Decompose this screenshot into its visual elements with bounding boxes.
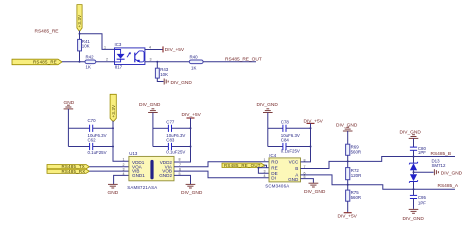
wire: IC3 pin4 to DIV_+5V: [145, 49, 163, 51]
resistor R41: [78, 39, 91, 51]
wire: +3.3V rail to U13 VDD1: [112, 121, 129, 162]
svg-text:C77: C77: [166, 120, 175, 125]
svg-text:SAM8721ASA: SAM8721ASA: [127, 185, 157, 190]
ground GND (above C70): [64, 100, 75, 109]
svg-text:DI: DI: [271, 176, 276, 181]
svg-text:GND: GND: [108, 190, 119, 196]
svg-text:DIV_GND: DIV_GND: [400, 130, 422, 136]
svg-text:DIV_GND: DIV_GND: [441, 170, 463, 176]
svg-text:IC4: IC4: [269, 153, 276, 158]
svg-text:0.1uF25V: 0.1uF25V: [166, 150, 185, 155]
wire: R75 to DIV_+5V: [347, 201, 349, 212]
wire: TX to U13 VOA: [89, 166, 128, 168]
wire: IC4 GND to DIV_GND: [301, 179, 314, 183]
power port DIV_+5V (pin4): [163, 46, 185, 53]
transceiver IC4: [265, 153, 300, 189]
resistor R42: [85, 54, 96, 69]
svg-text:560R: 560R: [351, 195, 362, 200]
resistor R72: [346, 168, 362, 180]
svg-text:1: 1: [104, 46, 106, 50]
ground DIV_GND (above C80): [400, 130, 422, 139]
capacitor C83: [153, 138, 191, 155]
svg-text:4: 4: [123, 172, 125, 176]
svg-text:DIV_GND: DIV_GND: [403, 216, 425, 222]
ground GND (below U13 pin4): [108, 184, 119, 195]
svg-text:C83: C83: [166, 138, 175, 143]
svg-text:1K: 1K: [86, 65, 91, 70]
wire: R40 to RS485_RE_OUT: [203, 61, 256, 63]
IC3 LED: [115, 50, 125, 62]
wire: R72 to R75: [347, 180, 349, 190]
svg-text:DIV_GND: DIV_GND: [257, 102, 279, 108]
wire: RS485_RE port to R42: [62, 61, 85, 63]
capacitor C62: [68, 138, 113, 156]
svg-text:2: 2: [106, 57, 108, 61]
svg-text:120R: 120R: [351, 173, 362, 178]
wire: +3.3V port to R41 and to IC3 pin1: [79, 31, 115, 50]
svg-text:+3.3V: +3.3V: [111, 105, 116, 118]
wire: DIV_GND to R69: [347, 131, 349, 144]
port +3.3V (top, vertical): [77, 5, 82, 32]
ground DIV_GND (above C78): [257, 102, 279, 113]
IC3 light arrow: [127, 52, 131, 57]
svg-text:2: 2: [264, 164, 266, 168]
wire: DIV_+5V rail to U13 VDD2: [174, 118, 192, 162]
svg-text:C62: C62: [88, 138, 97, 143]
capacitor C78: [268, 120, 311, 138]
svg-text:RS485_RE_OUT: RS485_RE_OUT: [224, 163, 261, 168]
svg-text:C70: C70: [88, 118, 97, 123]
ground DIV_GND (below C95): [403, 209, 425, 222]
svg-text:GND1: GND1: [132, 173, 145, 178]
isolator U13: [127, 151, 174, 190]
wire: RX to U13 VIB: [89, 170, 128, 172]
wire: DIV_GND rail (C78/C84): [267, 113, 269, 147]
wire: U13 VOB to IC4 DI: [174, 171, 269, 178]
wire: R41 to RE line junction: [79, 51, 81, 63]
U13 pin numbers: [123, 158, 182, 176]
svg-text:3: 3: [264, 170, 266, 174]
svg-text:1K: 1K: [191, 65, 196, 70]
wire: U13 GND2 to DIV_GND: [174, 175, 191, 184]
capacitor C80: [410, 138, 427, 156]
wire: DIV_GND rail (C77/C83): [152, 113, 154, 147]
resistor R40: [189, 54, 203, 70]
wire: R43 to DIV_GND: [157, 78, 163, 81]
svg-text:DIV_+5V: DIV_+5V: [182, 112, 202, 118]
wire: U13 VIA to IC4 RO: [174, 162, 269, 167]
svg-text:GND2: GND2: [159, 173, 172, 178]
capacitor C84: [268, 138, 311, 154]
svg-text:1PF: 1PF: [418, 150, 426, 155]
svg-text:DIV_+5V: DIV_+5V: [338, 213, 358, 219]
power port DIV_+5V (above IC4 VCC): [304, 118, 324, 124]
resistor R75: [346, 190, 362, 201]
TVS diode D13 (SM712): [409, 157, 446, 190]
svg-text:R75: R75: [351, 190, 360, 195]
IC4 pin numbers: [264, 158, 306, 179]
svg-text:RS485_B: RS485_B: [431, 151, 452, 157]
svg-text:R40: R40: [190, 54, 199, 59]
svg-text:DIV_GND: DIV_GND: [304, 189, 326, 195]
svg-text:R42: R42: [86, 54, 95, 59]
svg-text:3: 3: [150, 57, 152, 61]
svg-text:817: 817: [115, 65, 123, 70]
port RS485_RX: [47, 169, 89, 174]
svg-text:RS485_A: RS485_A: [438, 183, 459, 189]
svg-text:RO: RO: [271, 160, 278, 165]
svg-text:C84: C84: [281, 138, 290, 143]
svg-text:VCC: VCC: [289, 160, 299, 165]
op-to-coupler IC3 box: [115, 42, 145, 70]
svg-text:IC3: IC3: [115, 42, 122, 47]
ground DIV_GND (below U13 pin5): [181, 184, 203, 195]
svg-text:DIV_GND: DIV_GND: [139, 102, 161, 108]
power port DIV_+5V (below R75): [338, 213, 358, 220]
svg-text:0.1uF25V: 0.1uF25V: [88, 150, 107, 155]
wire: GND rail left (C70/C62): [67, 109, 69, 147]
svg-text:1: 1: [264, 158, 266, 162]
svg-text:8: 8: [179, 158, 181, 162]
wire: DIV_+5V rail to IC4 VCC: [301, 123, 312, 161]
svg-text:C95: C95: [418, 195, 427, 200]
ground DIV_GND (sideways, right of D13): [434, 169, 462, 176]
wire: IC4 B to RS485_B line: [301, 156, 456, 169]
svg-text:1: 1: [123, 158, 125, 162]
wire: R69 to R72: [347, 155, 349, 167]
svg-text:RE: RE: [271, 165, 277, 170]
svg-text:SM712: SM712: [432, 163, 446, 168]
svg-text:4: 4: [264, 174, 266, 178]
svg-text:GND: GND: [288, 177, 299, 182]
IC3 phototransistor: [135, 51, 144, 62]
svg-text:B: B: [295, 166, 298, 171]
ground DIV_GND (above R69): [336, 122, 358, 131]
svg-text:0.1uF25V: 0.1uF25V: [281, 149, 300, 154]
svg-text:DIV_GND: DIV_GND: [181, 190, 203, 196]
svg-text:DIV_GND: DIV_GND: [171, 80, 193, 86]
ground DIV_GND (above C77): [139, 102, 161, 113]
capacitor C77: [153, 120, 191, 138]
svg-text:RS485_RE: RS485_RE: [33, 60, 57, 65]
svg-text:C78: C78: [281, 120, 290, 125]
wire: IC3 pin3 to R40, junction: [145, 61, 189, 68]
wire: D13 mid to DIV_GND: [414, 171, 434, 173]
port RS485_RE_OUT (to IC4): [222, 163, 265, 168]
wire: port to IC4 RE and DE: [257, 165, 269, 173]
wire: U13 GND1 down to GND: [114, 175, 129, 184]
port RS485_TX: [47, 164, 89, 169]
svg-text:RS485_RE: RS485_RE: [35, 29, 59, 35]
svg-text:1PF: 1PF: [418, 201, 426, 206]
svg-text:2: 2: [123, 163, 125, 167]
svg-text:DIV_+5V: DIV_+5V: [165, 47, 185, 53]
svg-text:SCM3406A: SCM3406A: [265, 184, 289, 189]
svg-text:RS485_RE_OUT: RS485_RE_OUT: [225, 56, 262, 62]
svg-text:10K: 10K: [160, 72, 168, 77]
svg-text:U13: U13: [129, 151, 138, 156]
svg-text:10K: 10K: [82, 44, 90, 49]
port RS485_RE: [12, 59, 62, 64]
capacitor C95: [410, 189, 427, 209]
port +3.3V (bottom, vertical): [110, 94, 116, 122]
svg-text:560R: 560R: [351, 149, 362, 154]
capacitor C70: [68, 118, 113, 138]
wire: R42 to IC3 pin2: [96, 61, 115, 63]
ground DIV_GND (sideways, top section): [164, 79, 192, 86]
wire: IC4 A to RS485_A line: [301, 175, 456, 190]
power port DIV_+5V (above U13 VDD2): [182, 112, 202, 118]
svg-text:+3.3V: +3.3V: [77, 15, 82, 28]
resistor R43: [155, 67, 168, 78]
svg-text:RS485_RX: RS485_RX: [62, 169, 86, 174]
ground DIV_GND (below IC4 pin5): [304, 183, 326, 195]
resistor R69: [346, 144, 362, 155]
